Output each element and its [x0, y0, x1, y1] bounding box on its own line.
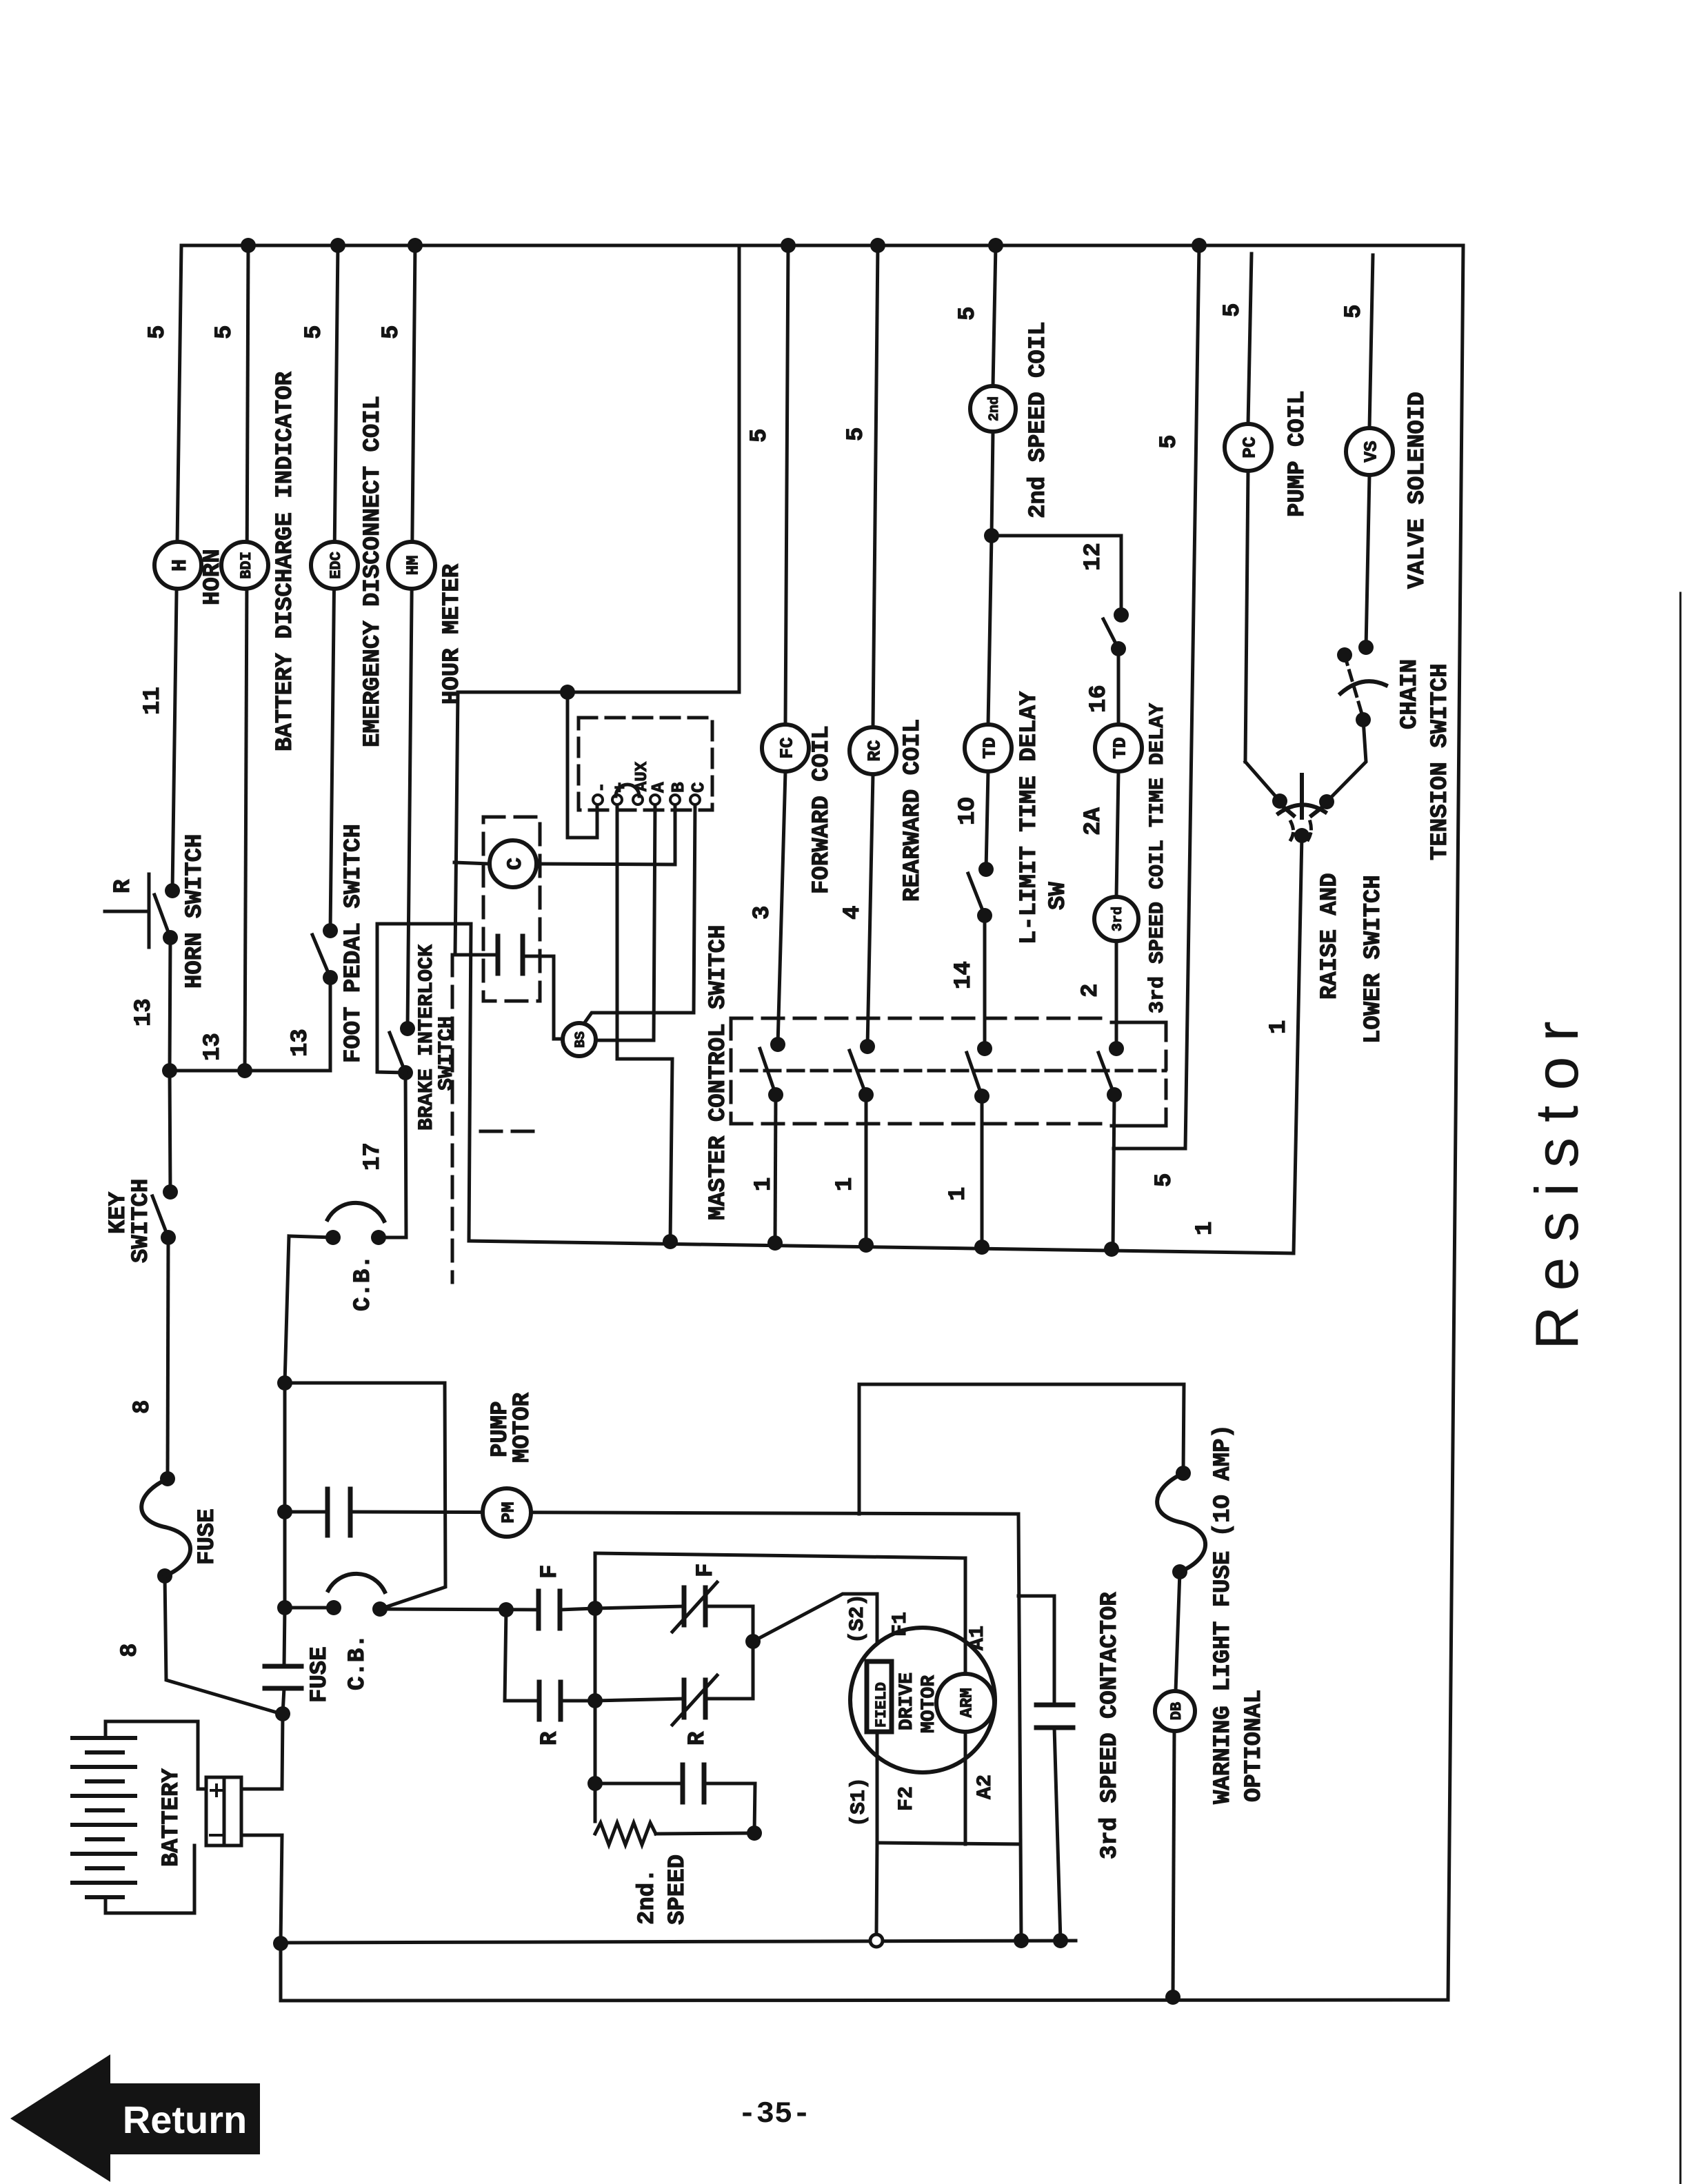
svg-text:5: 5: [1220, 303, 1246, 317]
svg-text:OPTIONAL: OPTIONAL: [1241, 1690, 1267, 1802]
svg-text:3: 3: [750, 906, 776, 920]
svg-text:2A: 2A: [1081, 807, 1107, 836]
svg-text:WARNING LIGHT FUSE (1O AMP): WARNING LIGHT FUSE (1O AMP): [1210, 1424, 1236, 1804]
svg-text:2nd: 2nd: [987, 396, 1003, 421]
svg-text:+: +: [610, 782, 631, 793]
svg-text:DB: DB: [1168, 1702, 1185, 1720]
svg-text:EMERGENCY DISCONNECT COIL: EMERGENCY DISCONNECT COIL: [360, 396, 386, 747]
svg-text:MOTOR: MOTOR: [510, 1392, 536, 1463]
svg-text:12: 12: [1081, 543, 1107, 571]
svg-text:13: 13: [288, 1029, 314, 1057]
svg-text:FUSE: FUSE: [307, 1646, 333, 1703]
svg-text:3rd: 3rd: [1110, 907, 1126, 931]
svg-text:BS: BS: [573, 1031, 589, 1048]
svg-text:C: C: [688, 782, 709, 793]
svg-text:RAISE AND: RAISE AND: [1317, 873, 1343, 1000]
svg-text:FIELD: FIELD: [873, 1682, 890, 1728]
svg-text:B: B: [668, 782, 689, 793]
svg-text:5: 5: [955, 307, 981, 321]
svg-text:5: 5: [843, 427, 870, 441]
svg-text:PM: PM: [498, 1502, 519, 1523]
svg-text:FOOT PEDAL SWITCH: FOOT PEDAL SWITCH: [341, 824, 367, 1063]
svg-text:LOWER SWITCH: LOWER SWITCH: [1360, 875, 1387, 1044]
svg-text:11: 11: [140, 687, 166, 715]
svg-text:5: 5: [301, 325, 328, 339]
svg-text:5: 5: [1152, 1173, 1178, 1187]
svg-text:ARM: ARM: [958, 1688, 977, 1717]
svg-text:SWITCH: SWITCH: [128, 1179, 154, 1263]
svg-text:REARWARD COIL: REARWARD COIL: [900, 719, 926, 902]
svg-text:HM: HM: [405, 556, 423, 576]
svg-text:1: 1: [945, 1187, 972, 1201]
svg-text:SWITCH: SWITCH: [435, 1016, 459, 1091]
svg-text:5: 5: [1341, 305, 1367, 318]
svg-text:Return: Return: [123, 2098, 247, 2141]
svg-text:MASTER CONTROL SWITCH: MASTER CONTROL SWITCH: [705, 925, 732, 1220]
svg-text:A2: A2: [974, 1775, 997, 1799]
svg-text:13: 13: [131, 998, 157, 1027]
svg-text:CHAIN: CHAIN: [1397, 659, 1423, 729]
svg-text:EDC: EDC: [328, 552, 345, 579]
svg-text:1: 1: [1266, 1020, 1292, 1034]
svg-text:Resistor: Resistor: [1523, 1006, 1591, 1350]
svg-text:1: 1: [1192, 1222, 1218, 1235]
svg-text:C.B.: C.B.: [350, 1255, 376, 1311]
svg-text:TENSION SWITCH: TENSION SWITCH: [1427, 663, 1454, 860]
svg-text:R: R: [110, 879, 137, 893]
svg-text:TD: TD: [1109, 737, 1130, 758]
svg-text:SPEED: SPEED: [665, 1854, 691, 1925]
svg-text:HORN: HORN: [200, 549, 226, 605]
svg-text:-35-: -35-: [738, 2097, 811, 2132]
svg-text:F: F: [693, 1564, 719, 1577]
svg-text:VS: VS: [1360, 441, 1381, 462]
svg-text:16: 16: [1086, 685, 1112, 713]
svg-text:RC: RC: [864, 740, 885, 761]
svg-text:5: 5: [145, 325, 171, 339]
svg-text:SW: SW: [1045, 882, 1072, 910]
svg-text:L-LIMIT TIME DELAY: L-LIMIT TIME DELAY: [1016, 691, 1043, 944]
svg-text:1: 1: [751, 1177, 777, 1191]
svg-text:-: -: [591, 782, 612, 793]
svg-text:HORN SWITCH: HORN SWITCH: [182, 834, 208, 989]
svg-text:F2: F2: [895, 1786, 918, 1811]
svg-text:BATTERY DISCHARGE INDICATOR: BATTERY DISCHARGE INDICATOR: [272, 372, 299, 751]
svg-text:PUMP COIL: PUMP COIL: [1285, 390, 1311, 517]
svg-text:5: 5: [379, 325, 405, 339]
svg-text:H: H: [169, 559, 192, 572]
svg-text:(S1): (S1): [847, 1777, 871, 1827]
svg-text:C.B.: C.B.: [345, 1634, 371, 1690]
svg-text:C: C: [504, 858, 527, 870]
svg-text:R: R: [685, 1731, 711, 1746]
svg-text:1O: 1O: [955, 797, 981, 825]
svg-text:A1: A1: [966, 1626, 989, 1650]
svg-text:BDI: BDI: [238, 552, 255, 579]
svg-text:8: 8: [130, 1400, 156, 1414]
svg-text:FUSE: FUSE: [194, 1508, 221, 1565]
svg-text:14: 14: [951, 961, 977, 989]
svg-text:DRIVE: DRIVE: [896, 1672, 918, 1730]
svg-text:2nd SPEED COIL: 2nd SPEED COIL: [1025, 321, 1052, 518]
svg-text:13: 13: [200, 1033, 226, 1061]
svg-text:PC: PC: [1239, 436, 1260, 458]
svg-text:TD: TD: [979, 737, 1000, 758]
svg-text:(S2): (S2): [846, 1594, 870, 1644]
svg-text:FC: FC: [776, 737, 797, 758]
svg-text:5: 5: [1156, 435, 1183, 449]
svg-text:4: 4: [840, 906, 866, 920]
svg-text:F1: F1: [889, 1612, 912, 1637]
svg-text:HOUR METER: HOUR METER: [439, 563, 465, 705]
svg-text:VALVE SOLENOID: VALVE SOLENOID: [1405, 392, 1431, 589]
svg-text:BATTERY: BATTERY: [159, 1768, 185, 1867]
svg-text:3rd SPEED COIL TIME DELAY: 3rd SPEED COIL TIME DELAY: [1146, 703, 1169, 1013]
svg-text:1: 1: [832, 1177, 858, 1191]
svg-text:F: F: [537, 1565, 563, 1579]
svg-text:5: 5: [212, 325, 238, 339]
svg-text:FORWARD COIL: FORWARD COIL: [809, 725, 835, 894]
svg-text:5: 5: [747, 429, 773, 443]
svg-text:A: A: [648, 782, 669, 793]
svg-text:R: R: [537, 1731, 563, 1746]
svg-text:8: 8: [117, 1644, 143, 1657]
svg-text:2nd.: 2nd.: [634, 1868, 661, 1925]
svg-text:17: 17: [360, 1142, 386, 1171]
svg-text:3rd SPEED CONTACTOR: 3rd SPEED CONTACTOR: [1097, 1592, 1123, 1859]
svg-text:2: 2: [1078, 984, 1104, 998]
